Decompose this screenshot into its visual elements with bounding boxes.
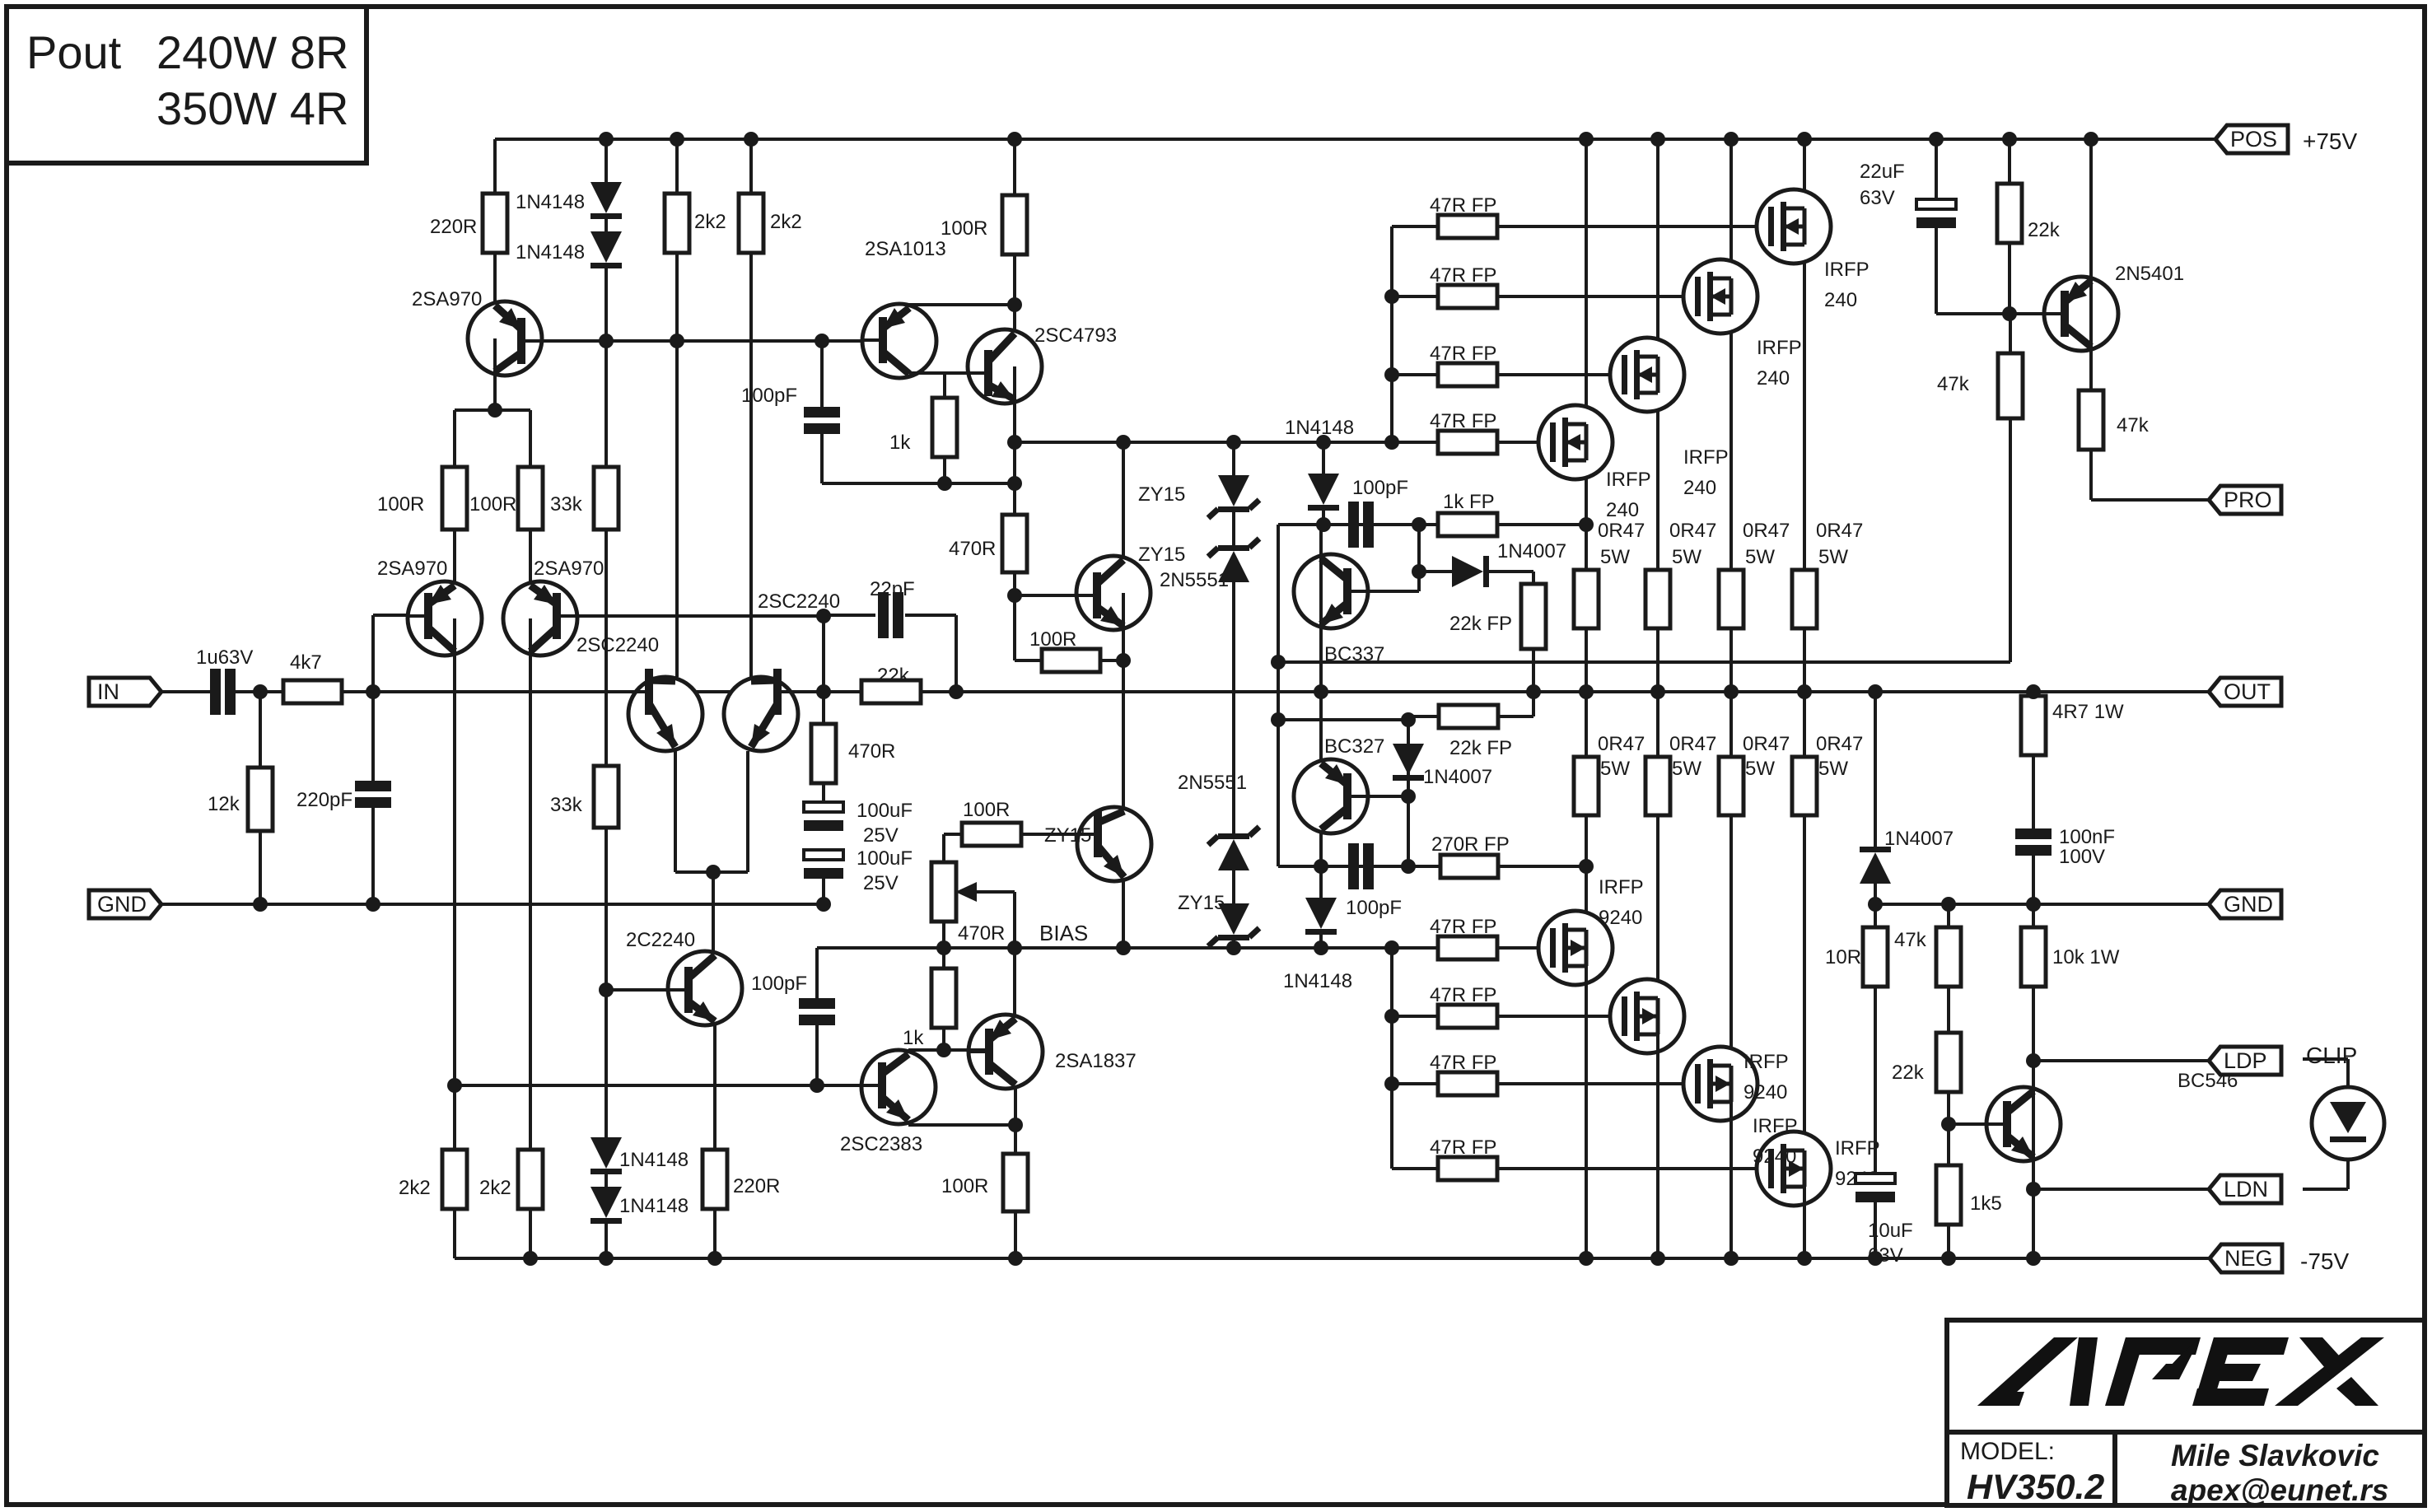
svg-text:ZY15: ZY15 (1178, 892, 1225, 914)
wire M7 drain to NEG (1729, 1084, 1733, 1258)
resistor 2k2 tail R (518, 1150, 543, 1209)
wire 22uF col top (1935, 139, 1938, 199)
svg-text:100V: 100V (2059, 846, 2105, 868)
svg-text:2N5551: 2N5551 (1178, 772, 1247, 794)
resistor 10k 1W (2021, 927, 2046, 987)
wire 1k to line587 (943, 457, 946, 483)
svg-text:2C2240: 2C2240 (626, 929, 695, 951)
svg-text:25V: 25V (863, 824, 899, 847)
svg-text:5W: 5W (1818, 758, 1848, 780)
svg-text:2k2: 2k2 (399, 1177, 431, 1199)
wire 0R47 bottom 1 down (1585, 815, 1588, 948)
svg-text:IRFP: IRFP (1743, 1051, 1789, 1073)
transistor Q17 BC546 (1986, 1087, 2061, 1161)
wire lineA2 (1278, 865, 1440, 868)
wire 22kFP2 right (1498, 715, 1533, 718)
resistor 47R FP top 1 (1438, 215, 1497, 238)
wire bracket stub R (529, 410, 532, 467)
svg-text:0R47: 0R47 (1669, 520, 1716, 542)
resistor 47R FP bottom 3 (1438, 1072, 1497, 1095)
resistor 0R47 5W bottom 1 (1574, 757, 1599, 815)
wire NEG rail (455, 1257, 2210, 1260)
wire Q9 base (1015, 594, 1095, 597)
wire 270R to M5 source (1498, 865, 1585, 868)
svg-text:IRFP: IRFP (1683, 446, 1729, 469)
wire 100R to Q8 (1013, 254, 1016, 366)
wire node1 down to 12k (259, 692, 262, 768)
resistor 1k lower (931, 968, 956, 1028)
svg-text:220R: 220R (733, 1175, 780, 1197)
svg-text:1N4148: 1N4148 (1283, 970, 1352, 992)
wire 47k3 to 22k3 (1947, 987, 1950, 1033)
wire D8 top (1319, 866, 1323, 898)
wire Q7 collector link (909, 371, 988, 375)
svg-text:470R: 470R (949, 538, 996, 560)
resistor 47k Q16 (2079, 390, 2103, 450)
wire 0R47 bottom 3 down (1729, 815, 1733, 1084)
wire 22k3 to 1k5 (1947, 1092, 1950, 1165)
svg-text:1k5: 1k5 (1970, 1192, 2002, 1215)
wire GND rail right (1875, 903, 2210, 906)
svg-text:100R: 100R (941, 217, 987, 240)
wire tail line (455, 1084, 881, 1087)
transistor Q2 2SA970 diff L (408, 581, 482, 656)
wire 0R47 top 2 to OUT (1729, 628, 1733, 692)
wire 1k5 to NEG (1947, 1225, 1950, 1258)
wire 47R row1 gate (1497, 225, 1772, 228)
connector IN (89, 678, 161, 706)
wire 47R row4 left (1392, 441, 1438, 444)
svg-text:apex@eunet.rs: apex@eunet.rs (2171, 1473, 2388, 1507)
svg-text:ZY15: ZY15 (1044, 824, 1091, 847)
svg-text:100R: 100R (377, 493, 424, 516)
transistor Q4 2SC2240 (628, 677, 703, 751)
diode D8 1N4148 (1305, 898, 1337, 929)
svg-text:HV350.2: HV350.2 (1967, 1468, 2104, 1507)
wire Q9 collector up (1122, 442, 1125, 593)
wire 47R brow3 gate (1497, 1082, 1699, 1085)
wire 22pF to corner (905, 614, 956, 617)
svg-text:NEG: NEG (2224, 1246, 2273, 1271)
resistor 4R7 1W (2021, 696, 2046, 755)
wire D5 to lineA (1322, 511, 1325, 525)
svg-text:IRFP: IRFP (1753, 1115, 1798, 1137)
wire 47R brow1 gate (1497, 946, 1554, 950)
svg-text:100R: 100R (1029, 628, 1076, 651)
wire M5 drain to NEG (1585, 948, 1588, 1258)
svg-text:4R7 1W: 4R7 1W (2052, 701, 2124, 723)
diode D6 1N4007 (1452, 556, 1483, 587)
wire 100R to Q2 emitter (453, 530, 456, 618)
svg-text:1N4148: 1N4148 (516, 241, 585, 264)
wire M4 drain up (1585, 139, 1588, 442)
resistor 1k VAS (932, 398, 957, 457)
svg-text:10k 1W: 10k 1W (2052, 946, 2120, 968)
svg-text:1u63V: 1u63V (196, 646, 253, 669)
svg-text:1N4007: 1N4007 (1497, 540, 1566, 562)
svg-text:100nF: 100nF (2059, 826, 2115, 848)
transistor Q3 2SA970 diff R (503, 581, 577, 656)
resistor 10R (1863, 927, 1888, 987)
wire M3 source down (1656, 375, 1659, 570)
resistor 0R47 5W top 2 (1719, 570, 1743, 628)
capacitor 100uF 25V b (804, 850, 843, 860)
resistor 47R FP top 2 (1438, 285, 1497, 308)
svg-text:IN: IN (97, 679, 119, 704)
svg-text:POS: POS (2230, 127, 2277, 152)
svg-text:470R: 470R (848, 740, 895, 763)
capacitor 100pF lower driver (799, 998, 835, 1009)
wire POS rail (495, 138, 2215, 141)
svg-text:100pF: 100pF (1352, 477, 1408, 499)
svg-text:1N4148: 1N4148 (516, 191, 585, 213)
svg-text:100uF: 100uF (857, 847, 913, 870)
svg-text:IRFP: IRFP (1757, 337, 1802, 359)
wire D2 to 33k (604, 268, 608, 467)
svg-text:1k: 1k (903, 1027, 924, 1049)
mosfet M3 IRFP240 (1610, 338, 1684, 412)
wire zener col top (1232, 442, 1235, 475)
wire gate line upper (1015, 441, 1438, 444)
wire M5 source up (1585, 692, 1588, 757)
svg-text:0R47: 0R47 (1816, 733, 1863, 755)
wire gate bus lower (1390, 948, 1393, 1169)
svg-text:47k: 47k (1937, 373, 1970, 395)
wire D8 to gate line (1319, 935, 1323, 948)
wire 22uF down (1935, 228, 1938, 314)
resistor 0R47 5W bottom 2 (1645, 757, 1670, 815)
wire 47R row2 gate (1497, 295, 1699, 298)
svg-text:IRFP: IRFP (1599, 876, 1644, 898)
wire node2 up to diff base (371, 615, 375, 781)
wire 0R47 top 1 to OUT (1803, 628, 1806, 692)
wire 1k2 to collector node (942, 1029, 945, 1050)
svg-text:1N4148: 1N4148 (619, 1195, 689, 1217)
wire 47R row3 gate (1497, 373, 1626, 376)
wire Q8 emitter col (1013, 366, 1016, 515)
svg-text:2N5401: 2N5401 (2115, 263, 2184, 285)
resistor 0R47 5W bottom 4 (1792, 757, 1817, 815)
wire 22k down (2008, 243, 2011, 311)
svg-text:100pF: 100pF (1346, 897, 1402, 919)
resistor 100R diff R (518, 467, 543, 530)
transistor Q9 2N5551 upper (1076, 556, 1151, 630)
wire 220R to Q1 (493, 253, 497, 338)
svg-text:10R: 10R (1825, 946, 1861, 968)
resistor 47k sense (1998, 353, 2023, 418)
title block divider v (2112, 1432, 2117, 1505)
transistor Q11 2C2240 (668, 951, 742, 1025)
wire diode col top (604, 139, 608, 182)
resistor 22k right (1997, 184, 2022, 243)
svg-text:ZY15: ZY15 (1138, 483, 1185, 506)
wire M7 source up (1729, 692, 1733, 757)
wire 470R to 100uF (822, 783, 825, 802)
wire C1 to R-4k7 (234, 690, 285, 693)
resistor 12k (248, 768, 273, 831)
wire 4R7 to 100nF (2032, 755, 2035, 828)
wire 47R brow3 left (1392, 1082, 1438, 1085)
wire BC546 base (1949, 1122, 2005, 1126)
resistor 1k5 (1936, 1165, 1961, 1225)
wire D5 top (1322, 442, 1325, 474)
wire Z2 down (1232, 582, 1235, 833)
svg-text:22uF: 22uF (1860, 161, 1905, 183)
resistor 0R47 5W bottom 3 (1719, 757, 1743, 815)
transistor Q10 2N5551 lower (1077, 807, 1151, 881)
svg-text:47R FP: 47R FP (1430, 1052, 1496, 1074)
capacitor 100pF upper driver (804, 407, 840, 418)
svg-text:25V: 25V (863, 872, 899, 894)
wire Q11 emitter (713, 1024, 717, 1150)
wire Q15 base (1351, 795, 1408, 798)
svg-text:5W: 5W (1600, 546, 1630, 568)
resistor 0R47 5W top 3 (1645, 570, 1670, 628)
mosfet M2 IRFP240 (1683, 259, 1757, 334)
wire LED bottom stub (2303, 1188, 2348, 1191)
Pout spec box (7, 7, 366, 163)
transistor Q13 2SC2383 (861, 1050, 936, 1124)
wire M3 drain up (1656, 139, 1659, 375)
svg-text:-75V: -75V (2300, 1248, 2349, 1274)
svg-text:47R FP: 47R FP (1430, 984, 1496, 1006)
resistor 22k FP lower (1439, 705, 1498, 728)
resistor 2k2 tail L (442, 1150, 467, 1209)
svg-text:22k: 22k (2028, 219, 2061, 241)
svg-text:2SC2383: 2SC2383 (840, 1133, 922, 1155)
wire 22pF corner down (955, 615, 958, 692)
wire LDN line (2033, 1188, 2210, 1191)
wire 470R to bias node (1013, 572, 1016, 660)
resistor 22k FP upper (1521, 584, 1546, 649)
wire Q10 emitter down (1122, 881, 1125, 948)
wire 220pF to GND (371, 808, 375, 904)
diode D1 1N4148 (590, 182, 622, 213)
svg-text:IRFP: IRFP (1824, 259, 1870, 281)
potentiometer 470R BIAS (931, 862, 956, 922)
capacitor 100pF BC327 (1348, 843, 1359, 889)
wire 100pF2 top (815, 948, 819, 998)
capacitor 22pF (878, 592, 889, 638)
wire Q16 emitter to rail (2089, 139, 2093, 314)
svg-text:9240: 9240 (1743, 1081, 1787, 1104)
wire Q3 base feedback line (556, 614, 824, 618)
svg-text:5W: 5W (1818, 546, 1848, 568)
svg-text:5W: 5W (1672, 758, 1701, 780)
connector NEG (2210, 1244, 2282, 1272)
wire 0R47 bottom 2 down (1656, 815, 1659, 1016)
wire 4R7 top (2032, 692, 2035, 696)
wire 47R brow4 left (1392, 1167, 1438, 1170)
wire 10uF to NEG (1874, 1202, 1877, 1258)
svg-text:5W: 5W (1600, 758, 1630, 780)
capacitor 100pF BC337 (1348, 502, 1359, 548)
wire 0R47 bottom 4 down (1803, 815, 1806, 1169)
capacitor 100nF 100V (2015, 828, 2052, 839)
wire 2k2b col down (749, 253, 753, 677)
wire 47k3 top (1947, 904, 1950, 927)
svg-text:0R47: 0R47 (1669, 733, 1716, 755)
wire Q17 emitter down (2032, 1124, 2035, 1258)
mosfet M6 IRFP9240 (1610, 979, 1684, 1053)
resistor 100R bias lower (962, 823, 1021, 846)
svg-text:100R: 100R (941, 1175, 988, 1197)
wire Q5 emitter down (746, 751, 749, 872)
svg-text:47k: 47k (1894, 929, 1927, 951)
wire bias node corner (1015, 659, 1042, 662)
wire Q13 collector link (908, 1048, 987, 1052)
svg-text:2SA970: 2SA970 (412, 288, 482, 310)
svg-text:BC327: BC327 (1324, 735, 1384, 758)
wire 47R row4 gate (1497, 441, 1554, 444)
pot wiper arrow (970, 890, 1015, 894)
svg-text:0R47: 0R47 (1598, 520, 1645, 542)
svg-text:2SC4793: 2SC4793 (1034, 324, 1117, 347)
APEX logo (1977, 1337, 2384, 1406)
wire gate line lower BIAS (817, 946, 1438, 950)
wire 2k2a col down (675, 341, 679, 677)
resistor 47R FP bottom 1 (1438, 936, 1497, 959)
connector GND (89, 890, 161, 918)
svg-text:22pF: 22pF (870, 578, 915, 600)
resistor 220R (483, 194, 507, 253)
svg-text:22k: 22k (1892, 1062, 1925, 1084)
svg-text:1N4007: 1N4007 (1884, 828, 1954, 850)
svg-text:47k: 47k (2117, 414, 2150, 436)
diode D7 1N4007 (1393, 744, 1424, 775)
capacitor C1 1u63V (210, 669, 221, 715)
svg-text:2k2: 2k2 (770, 211, 802, 233)
svg-text:270R FP: 270R FP (1431, 833, 1510, 856)
resistor 47k div (1936, 927, 1961, 987)
transistor Q16 2N5401 (2044, 277, 2118, 351)
svg-text:IRFP: IRFP (1835, 1137, 1880, 1160)
wire 33k to 33k2 (604, 530, 608, 766)
mosfet M4 IRFP240 (1538, 405, 1613, 479)
wire protection rail 804 (1278, 660, 2010, 664)
wire Z3-Z4 (1232, 870, 1235, 903)
wire 10R to 10uF (1874, 987, 1877, 1174)
wire 22pF branch (824, 614, 875, 617)
svg-text:47R FP: 47R FP (1430, 264, 1496, 287)
resistor 100R diff L (442, 467, 467, 530)
capacitor 100uF 25V a (804, 802, 843, 812)
wire D9 to GND line (1874, 883, 1877, 904)
wire Z4 to lower gate line (1232, 940, 1235, 948)
wire 874 corner down (1407, 720, 1410, 866)
wire 100pF2 to tail line (815, 1025, 819, 1085)
wire protection box left (1277, 525, 1280, 866)
zener ZY15 Z1 (1218, 475, 1249, 506)
title block box (1947, 1320, 2425, 1505)
capacitor 22uF 63V (1916, 199, 1956, 209)
resistor 270R FP (1440, 855, 1498, 878)
wire 47R brow4 gate (1497, 1167, 1772, 1170)
resistor 100R Q12 (1003, 1154, 1028, 1211)
resistor 47R FP bottom 2 (1438, 1005, 1497, 1028)
svg-text:240: 240 (1683, 477, 1716, 499)
wire 10k to Q17 (2032, 987, 2035, 1124)
wire pot to 1k2 (942, 922, 945, 968)
resistor 220R lower (703, 1150, 727, 1209)
svg-text:GND: GND (97, 892, 147, 917)
svg-text:33k: 33k (550, 794, 583, 816)
svg-text:63V: 63V (1860, 187, 1895, 209)
wire protection rail corner up (2009, 418, 2012, 662)
resistor 4k7 (283, 680, 342, 703)
wire Z1-Z2 (1232, 511, 1235, 545)
wire M6 drain to NEG (1656, 1016, 1659, 1258)
wire 100uF to GND (822, 879, 825, 904)
diode D4 1N4148 (590, 1187, 622, 1218)
svg-text:100uF: 100uF (857, 800, 913, 822)
wire LDP line (2033, 1059, 2210, 1062)
wire M1 source down (1803, 226, 1806, 570)
wire line874 (1278, 718, 1408, 721)
resistor 22k feedback (861, 680, 921, 703)
svg-text:350W 4R: 350W 4R (156, 82, 348, 134)
wire D6 left lead (1419, 570, 1452, 573)
wire line378 (1936, 312, 2045, 315)
wire M1 drain up (1803, 139, 1806, 226)
wire gate bus upper (1390, 226, 1393, 442)
wire 100nF to GND (2032, 856, 2035, 904)
svg-text:MODEL:: MODEL: (1960, 1438, 2055, 1465)
transistor Q15 BC327 (1294, 759, 1368, 833)
wire line587 (822, 482, 1015, 485)
wire 100R to cascode (1100, 659, 1123, 662)
wire 22kFP to OUT (1532, 649, 1535, 692)
connector LDP (2209, 1047, 2281, 1075)
wire diffL base stub (373, 614, 412, 617)
connector OUT (2209, 678, 2281, 706)
wire 100pF to line587 (820, 434, 824, 483)
mosfet M7 IRFP9240 (1683, 1047, 1757, 1121)
svg-text:2SA1013: 2SA1013 (865, 238, 946, 260)
svg-text:9240: 9240 (1753, 1146, 1796, 1168)
wire 12k to GND rail (259, 831, 262, 904)
svg-text:2SA970: 2SA970 (534, 558, 604, 580)
wire lineA tap down (1417, 525, 1421, 591)
zener ZY15 Z4 (1218, 903, 1249, 935)
svg-text:2SC2240: 2SC2240 (758, 590, 840, 613)
svg-text:22k FP: 22k FP (1449, 737, 1512, 759)
svg-text:Mile Slavkovic: Mile Slavkovic (2171, 1439, 2379, 1472)
resistor 100R bias upper (1042, 649, 1100, 672)
svg-text:PRO: PRO (2224, 488, 2272, 512)
svg-text:47R FP: 47R FP (1430, 343, 1496, 365)
wire 47k to PRO corner (2089, 450, 2093, 500)
wire VAS pair emitter bracket (675, 870, 748, 874)
resistor 470R feedback (811, 724, 836, 783)
wire PRO lead (2091, 498, 2210, 502)
svg-text:240: 240 (1824, 289, 1857, 311)
resistor 47R FP top 4 (1438, 431, 1497, 454)
wire 2k2L to NEG (453, 1209, 456, 1258)
mosfet M8 IRFP9240 (1757, 1132, 1831, 1206)
wire bracket stub L (453, 410, 456, 467)
connector POS (2215, 125, 2288, 153)
svg-text:0R47: 0R47 (1743, 733, 1790, 755)
svg-text:1N4148: 1N4148 (1285, 417, 1354, 439)
wire 33k2 down to diode pair 2 (604, 828, 608, 1137)
capacitor 220pF (355, 781, 391, 791)
svg-text:Pout: Pout (26, 26, 122, 78)
svg-text:22k FP: 22k FP (1449, 613, 1512, 635)
transistor Q14 BC337 (1294, 554, 1368, 628)
wire M6 source up (1656, 692, 1659, 757)
transistor Q8 2SC4793 (968, 329, 1042, 404)
